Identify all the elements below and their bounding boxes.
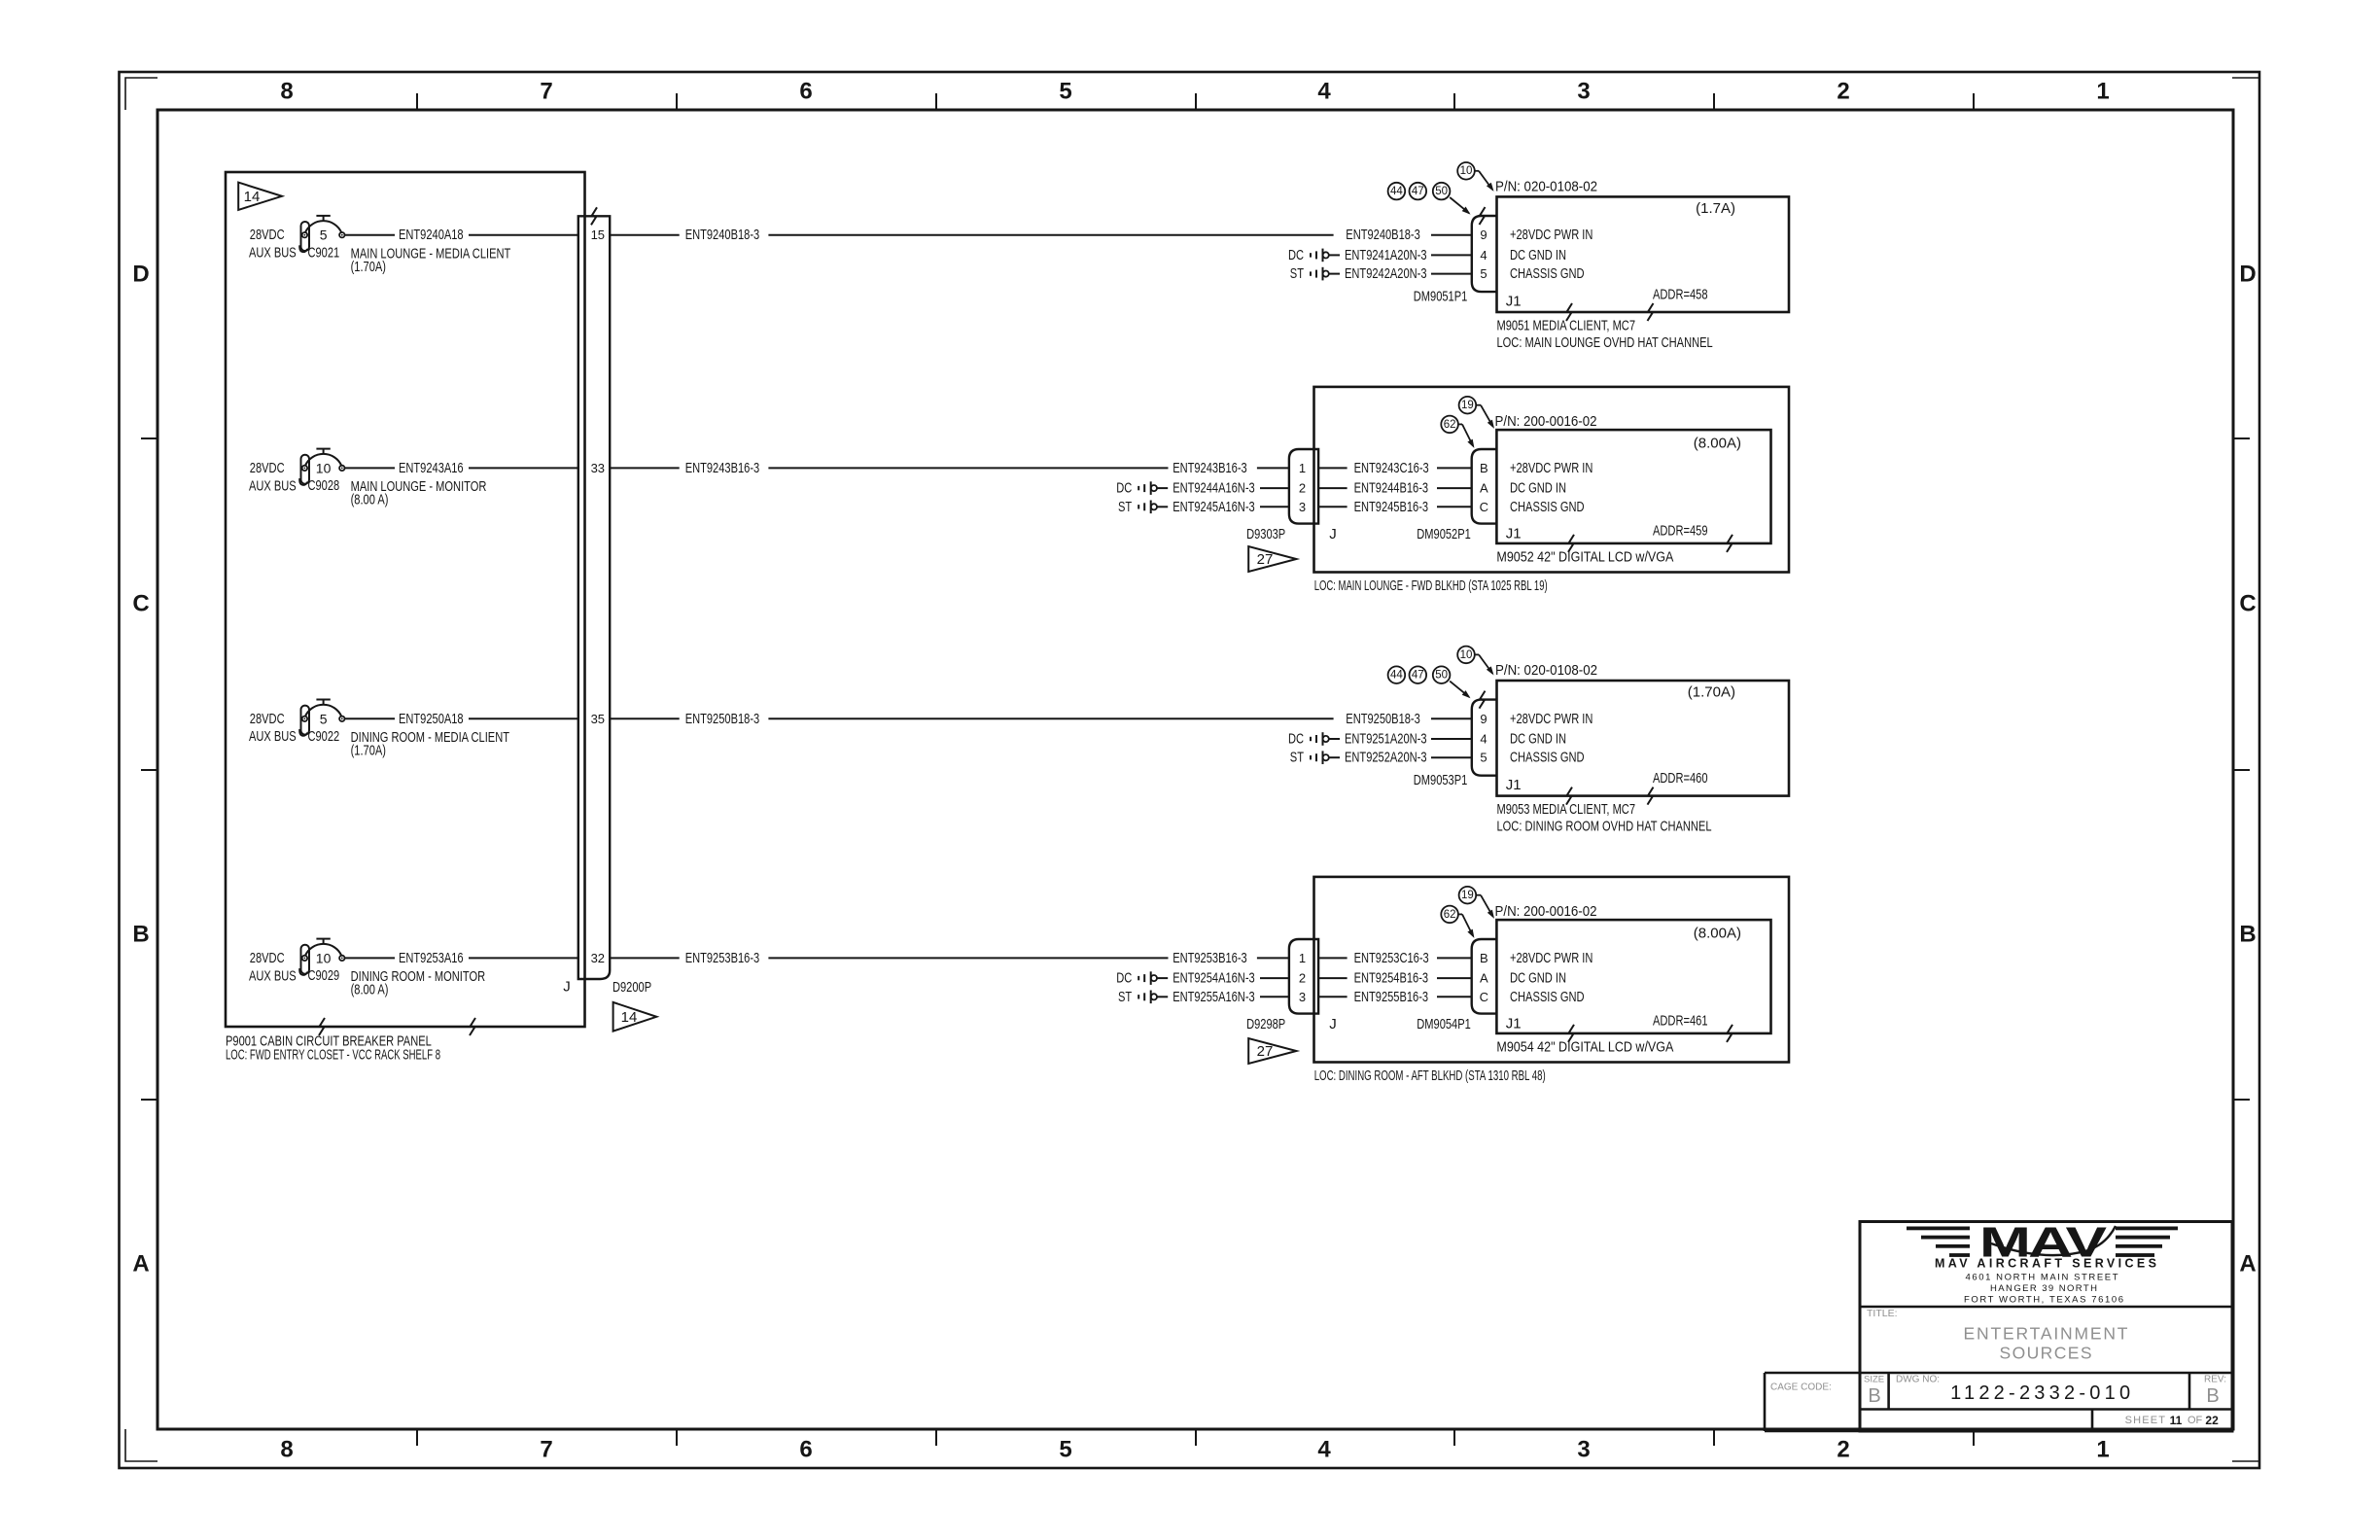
svg-text:CAGE CODE:: CAGE CODE: (1770, 1382, 1832, 1393)
svg-text:A: A (132, 1251, 149, 1277)
svg-text:22: 22 (2205, 1414, 2219, 1427)
svg-text:P/N: 020-0108-02: P/N: 020-0108-02 (1495, 662, 1597, 679)
svg-text:AUX BUS: AUX BUS (249, 728, 297, 745)
svg-text:ENT9245B16-3: ENT9245B16-3 (1354, 499, 1429, 515)
svg-text:ENT9251A20N-3: ENT9251A20N-3 (1345, 731, 1427, 748)
svg-text:33: 33 (591, 461, 605, 475)
svg-text:5: 5 (1480, 751, 1487, 765)
svg-text:P/N: 200-0016-02: P/N: 200-0016-02 (1495, 903, 1597, 920)
svg-text:J: J (563, 979, 571, 996)
svg-text:3: 3 (1299, 500, 1306, 514)
svg-text:DC: DC (1116, 480, 1132, 497)
svg-text:DC GND IN: DC GND IN (1510, 480, 1566, 497)
svg-text:47: 47 (1412, 670, 1424, 682)
device name M9054 (1496, 1039, 1673, 1056)
svg-text:B: B (1480, 951, 1488, 965)
svg-text:8: 8 (280, 79, 293, 105)
svg-text:10: 10 (1460, 649, 1473, 661)
svg-text:J: J (1329, 1016, 1337, 1032)
svg-text:C9029: C9029 (308, 967, 340, 984)
svg-text:J1: J1 (1506, 294, 1522, 310)
wire ENT9244B16-3 (1318, 480, 1472, 497)
wire ENT9244A16N-3 (DC shield) (1116, 480, 1289, 497)
svg-text:(1.7A): (1.7A) (1696, 200, 1735, 217)
svg-text:C9022: C9022 (308, 728, 340, 745)
svg-text:2: 2 (1299, 481, 1306, 496)
svg-text:DM9053P1: DM9053P1 (1414, 772, 1468, 788)
breaker load description C9022 (351, 729, 509, 759)
svg-text:ST: ST (1290, 750, 1304, 766)
connector DM9052P1 (pins B A C) (1417, 449, 1496, 542)
cage code cell (1770, 1382, 1832, 1393)
svg-text:A: A (1480, 481, 1488, 496)
svg-text:C9028: C9028 (308, 477, 340, 494)
svg-text:ENT9240B18-3: ENT9240B18-3 (1346, 227, 1420, 243)
svg-text:CHASSIS GND: CHASSIS GND (1510, 750, 1585, 766)
svg-text:LOC: MAIN LOUNGE OVHD HAT CHAN: LOC: MAIN LOUNGE OVHD HAT CHANNEL (1497, 334, 1713, 351)
device name M9052 (1496, 549, 1673, 566)
wire ENT9255A16N-3 (ST shield) (1118, 989, 1289, 1005)
svg-text:50: 50 (1435, 186, 1448, 197)
svg-text:10: 10 (316, 950, 332, 965)
svg-text:DM9054P1: DM9054P1 (1417, 1016, 1471, 1032)
svg-text:10: 10 (316, 460, 332, 475)
svg-text:CHASSIS GND: CHASSIS GND (1510, 989, 1585, 1005)
svg-text:M9053 MEDIA CLIENT, MC7: M9053 MEDIA CLIENT, MC7 (1497, 801, 1636, 818)
svg-text:C9021: C9021 (308, 245, 340, 262)
svg-text:P/N: 020-0108-02: P/N: 020-0108-02 (1495, 179, 1597, 195)
svg-text:ENT9253B16-3: ENT9253B16-3 (1172, 950, 1247, 966)
svg-text:ENT9253C16-3: ENT9253C16-3 (1354, 950, 1429, 966)
svg-text:32: 32 (591, 951, 605, 965)
svg-text:J1: J1 (1506, 525, 1522, 542)
svg-text:ENT9254B16-3: ENT9254B16-3 (1354, 970, 1429, 987)
svg-text:ENT9243B16-3: ENT9243B16-3 (1172, 460, 1247, 476)
wire ENT9253B16-3 (from D9200P) (610, 950, 759, 966)
svg-text:J: J (1329, 526, 1337, 542)
part number label P/N: 200-0016-02 (1495, 903, 1597, 920)
svg-text:ENTERTAINMENT: ENTERTAINMENT (1964, 1324, 2128, 1344)
svg-text:CHASSIS GND: CHASSIS GND (1510, 265, 1585, 282)
equipment enclosure M9052 (1314, 387, 1790, 573)
svg-text:SHEET: SHEET (2125, 1415, 2166, 1426)
zone row letters (132, 262, 2256, 1277)
svg-text:SOURCES: SOURCES (2000, 1343, 2092, 1362)
svg-text:SIZE: SIZE (1864, 1375, 1884, 1385)
wire ENT9240B18-3 (768, 227, 1471, 243)
svg-text:C: C (1480, 500, 1488, 514)
svg-text:D: D (2239, 262, 2256, 288)
location label (1314, 577, 1548, 594)
flag circle 10 (1457, 647, 1493, 676)
28VDC AUX BUS source (row 1) (249, 227, 297, 261)
sheet inner border (157, 110, 2233, 1429)
svg-text:28VDC: 28VDC (250, 460, 285, 476)
svg-text:B: B (132, 922, 149, 948)
svg-text:A: A (2239, 1251, 2256, 1277)
svg-text:ADDR=459: ADDR=459 (1653, 522, 1708, 539)
title block frame (1765, 1222, 2232, 1432)
wire ENT9250A18 (345, 711, 578, 727)
flag circle 62 (1441, 416, 1474, 448)
device name M9051 (1497, 318, 1713, 351)
svg-text:ST: ST (1118, 499, 1132, 515)
svg-text:10: 10 (1460, 165, 1473, 177)
svg-text:4: 4 (1480, 732, 1487, 747)
breaker load description C9028 (351, 478, 487, 508)
svg-text:(1.70A): (1.70A) (351, 743, 386, 759)
device name M9053 (1497, 801, 1712, 834)
flag note 14 (top) (238, 183, 282, 210)
svg-text:C: C (132, 591, 149, 617)
connector DM9051P1 (1414, 207, 1497, 305)
wire ENT9252A20N-3 (ST shield) (1290, 750, 1472, 766)
svg-text:LOC: FWD ENTRY CLOSET - VCC RA: LOC: FWD ENTRY CLOSET - VCC RACK SHELF 8 (226, 1046, 440, 1063)
part number label P/N: 020-0108-02 (1495, 179, 1597, 195)
svg-text:DC: DC (1116, 970, 1132, 987)
svg-text:P/N: 200-0016-02: P/N: 200-0016-02 (1495, 413, 1597, 430)
svg-text:ENT9250A18: ENT9250A18 (399, 711, 464, 727)
svg-text:DM9052P1: DM9052P1 (1417, 526, 1471, 542)
breaker load description C9029 (351, 968, 486, 998)
svg-text:CHASSIS GND: CHASSIS GND (1510, 499, 1585, 515)
device box M9054 (LCD) (1496, 920, 1770, 1042)
svg-text:50: 50 (1435, 670, 1448, 682)
svg-text:(8.00 A): (8.00 A) (351, 982, 389, 998)
wire ENT9254B16-3 (1318, 970, 1472, 987)
svg-text:AUX BUS: AUX BUS (249, 967, 297, 984)
wire ENT9245B16-3 (1318, 499, 1472, 515)
svg-text:28VDC: 28VDC (250, 711, 285, 727)
svg-text:4: 4 (1480, 248, 1487, 262)
flag circle 19 (1459, 397, 1494, 429)
svg-text:ENT9241A20N-3: ENT9241A20N-3 (1345, 247, 1427, 263)
svg-text:+28VDC PWR IN: +28VDC PWR IN (1510, 950, 1592, 966)
svg-text:5: 5 (1059, 1437, 1071, 1463)
svg-text:C: C (1480, 990, 1488, 1004)
svg-text:LOC: DINING ROOM - AFT BLKHD (: LOC: DINING ROOM - AFT BLKHD (STA 1310 R… (1314, 1067, 1546, 1084)
svg-text:4601 NORTH MAIN STREET: 4601 NORTH MAIN STREET (1966, 1273, 2118, 1283)
svg-text:B: B (2239, 922, 2256, 948)
svg-text:27: 27 (1257, 1043, 1274, 1060)
flag circles 44 47 50 (1388, 183, 1471, 215)
flag circle 19 (1459, 887, 1494, 919)
svg-text:3: 3 (1577, 79, 1590, 105)
svg-text:M9052 42" DIGITAL LCD w/VGA: M9052 42" DIGITAL LCD w/VGA (1496, 549, 1673, 566)
svg-text:D9200P: D9200P (612, 979, 651, 996)
svg-text:DWG NO:: DWG NO: (1896, 1375, 1940, 1385)
svg-text:2: 2 (1837, 79, 1849, 105)
wire ENT9245A16N-3 (ST shield) (1118, 499, 1289, 515)
drawing title (1867, 1308, 2128, 1362)
connector D9298P (pins 1 2 3) (1246, 939, 1337, 1032)
svg-text:(8.00 A): (8.00 A) (351, 492, 389, 508)
wire ENT9251A20N-3 (DC shield) (1288, 731, 1472, 748)
svg-text:44: 44 (1390, 670, 1403, 682)
svg-text:1: 1 (1299, 951, 1306, 965)
svg-text:DC: DC (1288, 247, 1304, 263)
svg-text:B: B (1868, 1385, 1880, 1407)
svg-text:27: 27 (1257, 551, 1274, 568)
part number label P/N: 200-0016-02 (1495, 413, 1597, 430)
svg-text:ENT9243B16-3: ENT9243B16-3 (685, 460, 760, 476)
MAV logo (1907, 1217, 2178, 1266)
svg-text:AUX BUS: AUX BUS (249, 477, 297, 494)
svg-text:4: 4 (1317, 79, 1331, 105)
svg-text:5: 5 (320, 227, 328, 243)
circuit breaker C9021 (5A) (299, 216, 344, 262)
28VDC AUX BUS source (row 4) (249, 950, 297, 984)
svg-text:FORT WORTH, TEXAS 76106: FORT WORTH, TEXAS 76106 (1964, 1295, 2123, 1306)
svg-text:(1.70A): (1.70A) (351, 259, 386, 275)
svg-text:DC GND IN: DC GND IN (1510, 247, 1566, 263)
svg-text:ENT9254A16N-3: ENT9254A16N-3 (1172, 970, 1255, 987)
svg-text:8: 8 (280, 1437, 293, 1463)
zone column numbers (280, 79, 2109, 1463)
svg-text:ADDR=460: ADDR=460 (1653, 770, 1708, 787)
flag note 27 (1248, 546, 1296, 572)
svg-text:A: A (1480, 971, 1488, 986)
svg-text:AUX BUS: AUX BUS (249, 245, 297, 262)
svg-text:ENT9253B16-3: ENT9253B16-3 (685, 950, 760, 966)
svg-text:14: 14 (621, 1009, 638, 1026)
svg-text:DC GND IN: DC GND IN (1510, 731, 1566, 748)
flag circles 44 47 50 (1388, 666, 1471, 698)
svg-text:ENT9253A16: ENT9253A16 (399, 950, 464, 966)
wire ENT9243B16-3 (768, 460, 1289, 476)
svg-text:62: 62 (1444, 909, 1456, 921)
wire ENT9250B18-3 (768, 711, 1471, 727)
wire ENT9243B16-3 (from D9200P) (610, 460, 759, 476)
wire ENT9241A20N-3 (DC shield) (1288, 247, 1472, 263)
svg-text:1: 1 (2096, 79, 2109, 105)
svg-text:28VDC: 28VDC (250, 950, 285, 966)
svg-text:2: 2 (1837, 1437, 1849, 1463)
svg-text:TITLE:: TITLE: (1867, 1308, 1898, 1319)
svg-text:9: 9 (1480, 227, 1487, 242)
svg-text:15: 15 (591, 227, 605, 242)
wire ENT9250B18-3 (from D9200P) (610, 711, 759, 727)
svg-text:D9303P: D9303P (1246, 526, 1285, 542)
wire ENT9253B16-3 (768, 950, 1289, 966)
svg-text:D: D (132, 262, 149, 288)
svg-text:ENT9255B16-3: ENT9255B16-3 (1354, 989, 1429, 1005)
wire ENT9253A16 (345, 950, 578, 966)
wire ENT9242A20N-3 (ST shield) (1290, 265, 1472, 282)
svg-text:M9054 42" DIGITAL LCD w/VGA: M9054 42" DIGITAL LCD w/VGA (1496, 1039, 1673, 1056)
svg-text:HANGER 39 NORTH: HANGER 39 NORTH (1990, 1283, 2097, 1294)
svg-text:62: 62 (1444, 419, 1456, 431)
svg-text:LOC: DINING ROOM OVHD HAT CHAN: LOC: DINING ROOM OVHD HAT CHANNEL (1497, 818, 1712, 834)
svg-text:6: 6 (799, 79, 812, 105)
28VDC AUX BUS source (row 3) (249, 711, 297, 745)
svg-text:B: B (2206, 1385, 2219, 1407)
svg-text:J1: J1 (1506, 777, 1522, 793)
svg-text:M9051 MEDIA CLIENT, MC7: M9051 MEDIA CLIENT, MC7 (1497, 318, 1636, 334)
svg-text:47: 47 (1412, 186, 1424, 197)
svg-text:1: 1 (2096, 1437, 2109, 1463)
flag note 27 (1248, 1038, 1296, 1064)
svg-text:+28VDC PWR IN: +28VDC PWR IN (1510, 711, 1592, 727)
svg-text:DC: DC (1288, 731, 1304, 748)
svg-text:7: 7 (540, 1437, 552, 1463)
svg-text:5: 5 (320, 711, 328, 726)
svg-text:6: 6 (799, 1437, 812, 1463)
svg-text:ADDR=461: ADDR=461 (1653, 1012, 1708, 1029)
svg-text:REV:: REV: (2204, 1375, 2226, 1385)
svg-text:(1.70A): (1.70A) (1688, 684, 1735, 701)
svg-text:DC GND IN: DC GND IN (1510, 970, 1566, 987)
svg-text:J1: J1 (1506, 1015, 1522, 1032)
svg-text:1: 1 (1299, 461, 1306, 475)
svg-text:+28VDC PWR IN: +28VDC PWR IN (1510, 460, 1592, 476)
svg-text:OF: OF (2187, 1415, 2203, 1426)
panel label P9001 (226, 1033, 440, 1064)
svg-text:3: 3 (1577, 1437, 1590, 1463)
sheet number row (2125, 1414, 2219, 1427)
zone border ticks (141, 93, 2250, 1446)
circuit breaker C9028 (10A) (299, 449, 344, 495)
connector D9200P (578, 207, 610, 979)
svg-text:ENT9240A18: ENT9240A18 (399, 227, 464, 243)
company name and address (1935, 1257, 2156, 1306)
svg-text:(8.00A): (8.00A) (1694, 436, 1741, 452)
svg-text:5: 5 (1480, 266, 1487, 281)
svg-text:ENT9250B18-3: ENT9250B18-3 (1346, 711, 1420, 727)
svg-text:19: 19 (1461, 400, 1474, 411)
svg-text:19: 19 (1461, 890, 1474, 901)
device box M9052 (LCD) (1496, 430, 1770, 552)
svg-text:11: 11 (2170, 1414, 2183, 1427)
svg-text:ENT9255A16N-3: ENT9255A16N-3 (1172, 989, 1255, 1005)
wire ENT9243A16 (345, 460, 578, 476)
svg-text:ST: ST (1290, 265, 1304, 282)
dwg no cell (1896, 1375, 2130, 1405)
svg-text:ST: ST (1118, 989, 1132, 1005)
flag circle 62 (1441, 906, 1474, 938)
device box M9053 (1497, 681, 1790, 805)
svg-text:3: 3 (1299, 990, 1306, 1004)
svg-text:B: B (1480, 461, 1488, 475)
svg-text:9: 9 (1480, 712, 1487, 726)
svg-text:ENT9242A20N-3: ENT9242A20N-3 (1345, 265, 1427, 282)
svg-text:ENT9245A16N-3: ENT9245A16N-3 (1172, 499, 1255, 515)
svg-text:5: 5 (1059, 79, 1071, 105)
connector DM9054P1 (pins B A C) (1417, 939, 1496, 1032)
equipment enclosure M9054 (1314, 877, 1790, 1063)
connector DM9053P1 (1414, 691, 1497, 789)
svg-text:ENT9252A20N-3: ENT9252A20N-3 (1345, 750, 1427, 766)
svg-text:2: 2 (1299, 971, 1306, 986)
part number label P/N: 020-0108-02 (1495, 662, 1597, 679)
wire ENT9254A16N-3 (DC shield) (1116, 970, 1289, 987)
wire ENT9240B18-3 (from D9200P) (610, 227, 759, 243)
svg-text:D9298P: D9298P (1246, 1016, 1285, 1032)
svg-text:C: C (2239, 591, 2256, 617)
connector labels J / D9200P (563, 979, 651, 997)
svg-text:35: 35 (591, 712, 605, 726)
wire ENT9243C16-3 (1318, 460, 1472, 476)
svg-text:7: 7 (540, 79, 552, 105)
svg-text:LOC: MAIN LOUNGE - FWD BLKHD (: LOC: MAIN LOUNGE - FWD BLKHD (STA 1025 R… (1314, 577, 1548, 594)
svg-text:4: 4 (1317, 1437, 1331, 1463)
circuit breaker C9022 (5A) (299, 700, 344, 746)
device box M9051 (1497, 196, 1790, 321)
svg-text:14: 14 (244, 189, 261, 205)
circuit breaker C9029 (10A) (299, 939, 344, 985)
svg-text:+28VDC PWR IN: +28VDC PWR IN (1510, 227, 1592, 243)
wire ENT9255B16-3 (1318, 989, 1472, 1005)
rev cell (2204, 1375, 2226, 1408)
svg-text:ADDR=458: ADDR=458 (1653, 287, 1708, 303)
svg-text:ENT9250B18-3: ENT9250B18-3 (685, 711, 760, 727)
svg-text:ENT9240B18-3: ENT9240B18-3 (685, 227, 760, 243)
svg-text:ENT9243C16-3: ENT9243C16-3 (1354, 460, 1429, 476)
28VDC AUX BUS source (row 2) (249, 460, 297, 494)
svg-text:ENT9243A16: ENT9243A16 (399, 460, 464, 476)
svg-text:DM9051P1: DM9051P1 (1414, 289, 1468, 305)
svg-text:ENT9244A16N-3: ENT9244A16N-3 (1172, 480, 1255, 497)
svg-text:44: 44 (1390, 186, 1403, 197)
connector D9303P (pins 1 2 3) (1246, 449, 1337, 542)
flag note 14 (at D9200P) (613, 1002, 657, 1032)
svg-text:(8.00A): (8.00A) (1694, 926, 1741, 942)
svg-text:28VDC: 28VDC (250, 227, 285, 243)
breaker load description C9021 (351, 245, 511, 275)
size cell (1864, 1375, 1884, 1408)
flag circle 10 (1457, 162, 1493, 192)
wire ENT9240A18 (345, 227, 578, 243)
wire ENT9253C16-3 (1318, 950, 1472, 966)
breaker panel P9001 outline (226, 172, 585, 1035)
svg-text:ENT9244B16-3: ENT9244B16-3 (1354, 480, 1429, 497)
location label (1314, 1067, 1546, 1084)
